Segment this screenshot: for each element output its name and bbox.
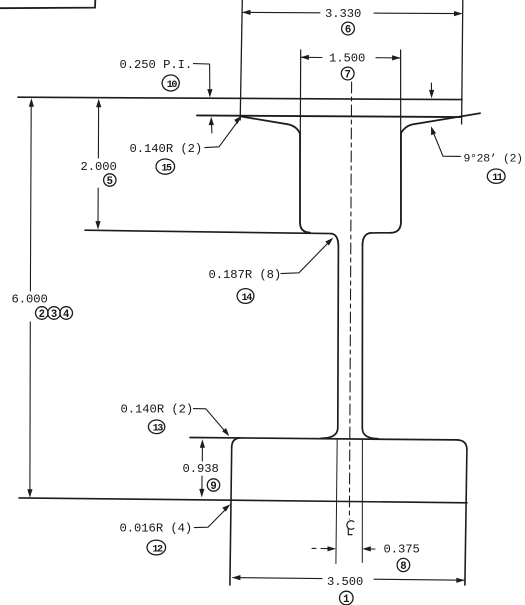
leader 0.250 P.I. (194, 63, 209, 65)
arrow 0.938 down (199, 489, 204, 498)
bottom flange left edge + extension to 3.500 (230, 448, 232, 586)
head left side vertical (299, 133, 301, 223)
arrow P.I. up (below line) (209, 117, 214, 126)
web right edge (361, 245, 363, 428)
svg-text:9°28’ (2): 9°28’ (2) (464, 154, 523, 166)
leader 0.140R (2) upper (205, 119, 240, 148)
bottom flange top surface + left extension (190, 438, 457, 440)
arrow 2.000 down (95, 221, 100, 230)
web lower left fillet (321, 428, 338, 438)
dimension 0.938 line (201, 443, 204, 493)
circle 9 (207, 479, 219, 491)
web lower right fillet (362, 428, 378, 439)
svg-text:9: 9 (210, 481, 216, 493)
left flange taper 9deg28 (242, 117, 300, 134)
bottom flange right edge + extension to 3.500 (465, 450, 467, 586)
circle 3 (48, 307, 61, 320)
svg-text:0.187R (8): 0.187R (8) (209, 268, 282, 282)
extension line right flange tip x=462 (462, 0, 463, 124)
circle 13 (148, 420, 164, 434)
svg-text:1.500: 1.500 (329, 52, 365, 66)
circle 14 (237, 289, 254, 304)
arrow 6.000 down (27, 489, 32, 498)
arrow 3.500 right (456, 578, 465, 583)
circle 10 (162, 75, 179, 91)
svg-text:10: 10 (167, 80, 178, 91)
centerline dashed (349, 82, 351, 519)
svg-text:0.938: 0.938 (183, 462, 219, 476)
svg-text:0.375: 0.375 (384, 543, 420, 557)
svg-text:14: 14 (242, 293, 253, 304)
circle 11 (487, 169, 505, 183)
head underside right segment (371, 232, 391, 234)
svg-text:3.500: 3.500 (327, 575, 363, 589)
beam top surface (18, 97, 462, 99)
svg-text:2: 2 (39, 309, 45, 321)
circle 7 (341, 67, 354, 80)
svg-text:3.330: 3.330 (325, 7, 361, 21)
leader 0.140R (2) lower (194, 409, 226, 432)
circle 8 (397, 558, 410, 571)
circle 4 (60, 307, 73, 320)
arrow leader 13 (222, 428, 229, 436)
svg-text:6.000: 6.000 (12, 292, 48, 306)
svg-text:15: 15 (161, 164, 172, 175)
dimension 3.500 line (233, 578, 464, 581)
web upper left fillet 0.187R (332, 234, 339, 246)
svg-text:7: 7 (345, 69, 351, 81)
leader 9deg28 (434, 133, 461, 156)
flange P.I. underside line (197, 115, 460, 117)
arrow leader 11 (431, 126, 436, 135)
head underside line + left extension (85, 230, 332, 233)
bottom flange top-right corner fillet 0.140R (457, 440, 467, 450)
arrow leader 15 (234, 116, 242, 124)
svg-text:0.250 P.I.: 0.250 P.I. (120, 58, 193, 72)
centerline symbol CL (347, 521, 354, 535)
arrow leader 12 (222, 504, 230, 511)
svg-text:3: 3 (51, 309, 57, 321)
svg-text:11: 11 (492, 173, 503, 184)
circle 1 (340, 591, 354, 605)
dimension 2.000 vertical line (97, 106, 100, 222)
head left lower fillet (300, 223, 310, 233)
right flange taper 9deg28 (401, 113, 480, 133)
arrow 0.938 up (200, 439, 205, 448)
svg-text:5: 5 (107, 176, 113, 188)
arrow 1.500 left (300, 55, 309, 60)
svg-text:2.000: 2.000 (81, 160, 117, 174)
web upper right fillet 0.187R (363, 233, 372, 245)
arrow 3.330 right (454, 11, 463, 16)
circle 6 (342, 22, 355, 35)
web left extension line to 0.375 dim (336, 439, 337, 564)
arrow 3.500 left (232, 575, 241, 580)
circle 5 (104, 174, 116, 186)
arrow 6.000 up (29, 98, 34, 107)
frame corner top-left (0, 0, 95, 8)
head right side vertical (400, 133, 402, 222)
leader 0.187R (8) (281, 243, 329, 274)
extension line left flange tip x=242 (240, 0, 242, 120)
web right extension line to 0.375 dim (361, 439, 363, 563)
circle 12 (147, 540, 166, 555)
upper right small down arrow (430, 83, 432, 90)
svg-text:12: 12 (152, 544, 163, 555)
bottom flange bottom line + left extension for 6.000 (19, 498, 467, 503)
circle 15 (156, 159, 175, 174)
arrow 0.375 left-pointing (362, 546, 371, 551)
svg-text:0.140R (2): 0.140R (2) (121, 403, 194, 417)
dimension 1.500 line (301, 56, 400, 59)
dimension 3.330 line (243, 12, 461, 13)
arrow 0.375 right-pointing (328, 546, 337, 551)
arrow 1.500 right (392, 55, 401, 60)
circle 2 (36, 307, 49, 320)
web left edge (337, 246, 340, 428)
svg-text:6: 6 (345, 24, 351, 36)
arrow 0.250 down (207, 89, 212, 98)
svg-text:1: 1 (343, 594, 349, 605)
dimension 0.375 arrows (312, 547, 316, 549)
svg-text:8: 8 (400, 561, 406, 573)
svg-text:13: 13 (153, 424, 164, 435)
head right lower fillet (391, 222, 402, 233)
arrow leader 14 (325, 238, 333, 246)
dimension 6.000 vertical line (30, 106, 31, 491)
extension line head right x=400.6 (400, 50, 402, 221)
svg-text:4: 4 (63, 309, 70, 321)
extension line head left x=300 (299, 50, 302, 223)
arrow 2.000 up (96, 99, 101, 108)
svg-text:0.140R (2): 0.140R (2) (130, 142, 203, 156)
arrow 3.330 left (242, 10, 251, 15)
bottom flange top-left corner fillet 0.140R (232, 438, 240, 448)
leader 0.016R (4) (194, 509, 226, 528)
svg-text:0.016R (4): 0.016R (4) (120, 522, 193, 536)
